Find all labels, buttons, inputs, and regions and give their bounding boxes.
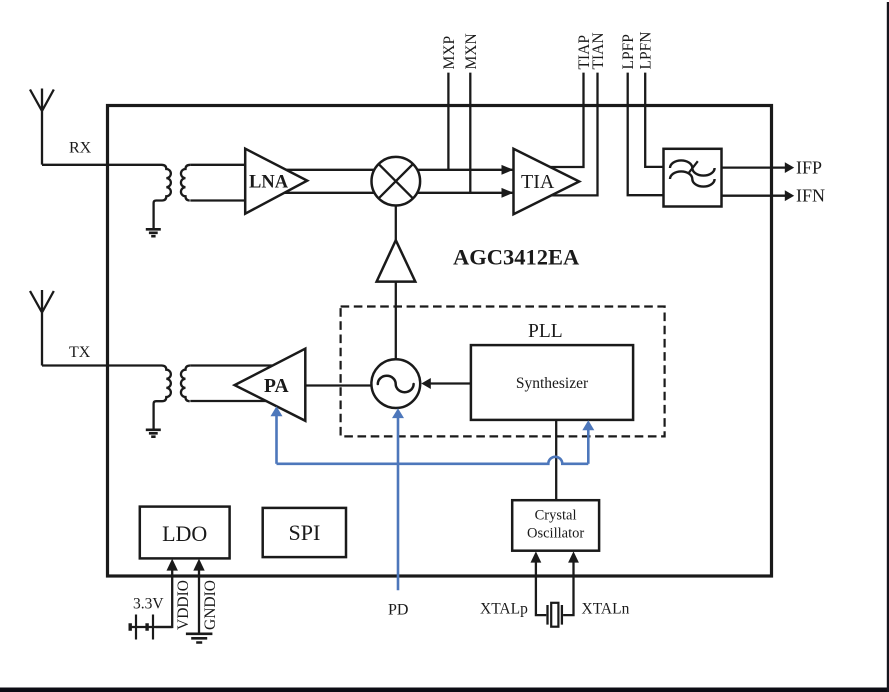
transformer T2 primary bbox=[154, 366, 171, 430]
svg-text:SPI: SPI bbox=[289, 520, 321, 545]
svg-text:GNDIO: GNDIO bbox=[202, 580, 219, 630]
pin XTALn wire bbox=[563, 562, 573, 615]
svg-text:PLL: PLL bbox=[528, 321, 563, 342]
blue branch to PA bbox=[275, 416, 278, 464]
wire IFP bbox=[722, 166, 786, 168]
crystal oscillator box bbox=[512, 500, 599, 551]
svg-text:3.3V: 3.3V bbox=[133, 596, 164, 613]
svg-text:MXP: MXP bbox=[441, 36, 458, 70]
oscillator VCO bbox=[371, 359, 420, 408]
synthesizer box bbox=[471, 345, 633, 420]
pin LPFN wire bbox=[645, 73, 663, 167]
ground (TX transformer) bbox=[146, 430, 161, 437]
TIA U2 bbox=[514, 149, 580, 214]
chip outer box bbox=[108, 106, 772, 577]
wire synthesizer to oscillator bbox=[430, 382, 471, 384]
svg-text:PA: PA bbox=[264, 376, 289, 397]
LDO box bbox=[140, 507, 230, 559]
transformer T1 primary bbox=[154, 165, 171, 229]
pin MXN wire bbox=[469, 73, 471, 193]
svg-text:MXN: MXN bbox=[463, 33, 480, 69]
transformer T1 secondary bbox=[181, 165, 190, 201]
PD wire bbox=[397, 418, 400, 590]
arrow into TIA bottom input bbox=[502, 188, 514, 198]
wire synthesizer to crystal oscillator bbox=[555, 420, 557, 500]
blue arrow into PA bbox=[271, 406, 283, 416]
svg-text:LNA: LNA bbox=[249, 173, 289, 193]
svg-text:LDO: LDO bbox=[162, 521, 207, 546]
rotated pin labels bbox=[175, 32, 655, 630]
black arrowheads bbox=[167, 162, 795, 570]
arrow synthesizer to oscillator bbox=[421, 378, 431, 389]
text labels bbox=[69, 140, 92, 362]
arrow into TIA top input bbox=[502, 165, 514, 175]
pin TIAP wire bbox=[550, 73, 584, 167]
PA U3 bbox=[235, 349, 306, 421]
transformer T2 secondary bbox=[181, 366, 190, 402]
mixer X1 bbox=[372, 157, 421, 206]
svg-text:PD: PD bbox=[388, 602, 408, 619]
svg-text:AGC3412EA: AGC3412EA bbox=[453, 245, 580, 270]
LNA U1 bbox=[245, 149, 307, 214]
ground (GNDIO) bbox=[186, 634, 213, 643]
wire amp to oscillator bbox=[395, 282, 397, 360]
svg-text:TX: TX bbox=[69, 344, 91, 361]
svg-text:VDDIO: VDDIO bbox=[175, 580, 192, 630]
arrow into LDO (VDDIO) bbox=[167, 559, 178, 571]
filter wave symbol bbox=[670, 160, 715, 175]
svg-text:Synthesizer: Synthesizer bbox=[516, 375, 589, 392]
pin MXP wire bbox=[447, 73, 449, 170]
arrow into crystal osc (XTALn) bbox=[568, 551, 579, 562]
wire secondary to LNA (top) bbox=[190, 164, 245, 166]
blue control net bbox=[277, 416, 589, 591]
wire TX antenna to transformer bbox=[42, 364, 162, 366]
crystal Y1 bbox=[548, 605, 562, 625]
svg-text:TIA: TIA bbox=[521, 171, 555, 193]
wire PA to transformer (bottom) bbox=[190, 400, 270, 402]
SPI box bbox=[263, 508, 346, 557]
wire secondary to LNA (bottom) bbox=[190, 199, 245, 201]
amplifier A1 bbox=[377, 240, 416, 281]
svg-text:IFP: IFP bbox=[796, 158, 822, 178]
wire LNA to mixer to TIA (top, RF P) bbox=[280, 169, 513, 171]
pin VDDIO wire bbox=[156, 570, 173, 627]
blue branch to synthesizer bbox=[587, 430, 590, 464]
blue arrow into synthesizer bbox=[582, 420, 594, 430]
wire PA to transformer (top) bbox=[190, 364, 272, 366]
svg-text:Crystal: Crystal bbox=[535, 508, 577, 524]
pin TIAN wire bbox=[551, 73, 598, 196]
svg-text:XTALp: XTALp bbox=[480, 601, 528, 618]
arrow into LDO (GNDIO) bbox=[193, 559, 204, 571]
svg-text:LPFP: LPFP bbox=[620, 34, 637, 69]
blue bus wire with hop bbox=[277, 457, 589, 464]
PLL dashed box bbox=[341, 307, 665, 437]
arrow into crystal osc (XTALp) bbox=[531, 551, 542, 562]
amplifier A1 (LO buffer) wire from mixer bbox=[395, 206, 397, 241]
wire PA output to oscillator bbox=[305, 384, 373, 386]
svg-text:TIAN: TIAN bbox=[590, 32, 607, 69]
right border line bbox=[887, 2, 889, 692]
sine wave bbox=[378, 376, 414, 392]
arrow IFP bbox=[785, 162, 794, 173]
wire IFN bbox=[722, 195, 786, 197]
svg-text:IFN: IFN bbox=[796, 186, 825, 206]
bottom border bar bbox=[0, 688, 889, 692]
pin LPFP wire bbox=[628, 73, 664, 196]
svg-text:RX: RX bbox=[69, 140, 92, 157]
svg-text:LPFN: LPFN bbox=[638, 32, 655, 70]
arrow IFN bbox=[785, 190, 794, 201]
pin XTALp wire bbox=[536, 562, 546, 615]
wire RX antenna to transformer bbox=[42, 164, 162, 166]
ground (RX transformer) bbox=[146, 229, 161, 236]
antenna TX bbox=[30, 290, 54, 366]
wire LNA to mixer to TIA (bottom, RF N) bbox=[280, 192, 513, 194]
svg-text:Oscillator: Oscillator bbox=[527, 526, 584, 542]
pin GNDIO wire bbox=[198, 570, 200, 634]
svg-text:XTALn: XTALn bbox=[582, 601, 630, 618]
battery 3.3V bbox=[131, 626, 172, 628]
filter F1 box bbox=[664, 149, 722, 207]
blue arrow into oscillator bbox=[392, 408, 404, 418]
antenna RX bbox=[30, 89, 54, 165]
